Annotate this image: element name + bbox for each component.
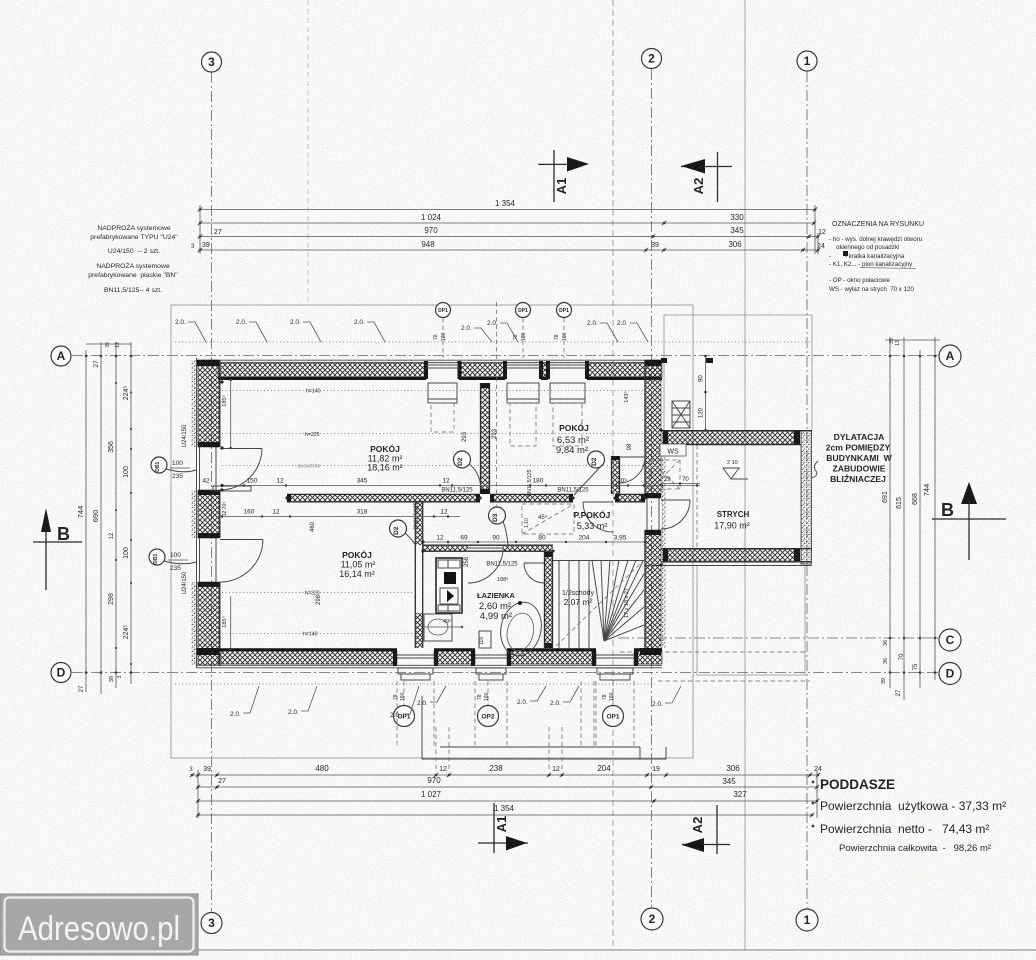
- svg-text:258: 258: [464, 556, 470, 567]
- W1 door leaf/swing: [583, 501, 613, 503]
- svg-text:- - kratka kanalizacyjn: - - kratka kanalizacyjna: [829, 253, 905, 260]
- bottom window symbol: [475, 655, 507, 680]
- svg-text:143⁵: 143⁵: [623, 391, 630, 402]
- svg-text:DB1: DB1: [155, 462, 161, 472]
- dim row bottom 3: [196, 790, 819, 803]
- svg-text:42: 42: [202, 478, 210, 485]
- svg-text:2.0.: 2.0.: [617, 320, 628, 327]
- room label POKOJ 11,82: [367, 443, 403, 473]
- dots near poddasze: [812, 781, 815, 784]
- grid bubble D left: [51, 663, 71, 683]
- section marker B right: [932, 482, 1006, 560]
- svg-text:185⁵: 185⁵: [221, 395, 228, 406]
- svg-text:160: 160: [609, 692, 615, 701]
- svg-text:5,33 m²: 5,33 m²: [577, 521, 608, 531]
- right dim dot: [903, 637, 906, 640]
- left dim tick: [115, 559, 117, 561]
- svg-text:460: 460: [310, 521, 316, 532]
- svg-text:318: 318: [357, 509, 368, 516]
- svg-text:2 10: 2 10: [727, 460, 738, 466]
- svg-text:1 354: 1 354: [494, 804, 515, 813]
- svg-text:744: 744: [76, 506, 85, 519]
- window projection dash x596: [595, 681, 597, 747]
- svg-text:235: 235: [172, 473, 183, 480]
- svg-text:U24/150 -- 2 szt.: U24/150 -- 2 szt.: [108, 248, 160, 255]
- bottom wall jamb block: [393, 650, 397, 666]
- svg-text:36: 36: [883, 640, 889, 646]
- room label STRYCH: [714, 510, 750, 531]
- svg-text:12 70⁵: 12 70⁵: [222, 502, 228, 517]
- svg-text:OZNACZENIA NA RYSUNKU: OZNACZENIA NA RYSUNKU: [832, 221, 924, 228]
- bottom wall outer face lines: [196, 664, 662, 666]
- dim row 1024/330 top: [198, 213, 816, 225]
- interior wall W1 segment: [287, 494, 480, 501]
- extension bottom wall: [661, 548, 812, 550]
- roof slope dotted lines bottom rooms: [222, 592, 415, 594]
- svg-text:NADPROŻA systemowe: NADPROŻA systemowe: [97, 223, 170, 232]
- svg-text:17 x 18 x 27: 17 x 18 x 27: [624, 588, 630, 618]
- right dim dot: [889, 355, 892, 358]
- WS hatch dashed box: [650, 460, 680, 489]
- right dim dot: [889, 637, 892, 640]
- bottom wall masonry segment: [634, 651, 662, 664]
- svg-text:224⁵: 224⁵: [123, 625, 130, 640]
- wall corner block top-left: [197, 360, 219, 366]
- dim row 948/306 top: [198, 240, 825, 252]
- svg-text:306: 306: [726, 764, 740, 773]
- washbasin: [424, 614, 452, 641]
- left dim tick: [130, 492, 132, 494]
- svg-text:2.0.: 2.0.: [587, 320, 598, 327]
- roof slope dotted lines top rooms: [222, 390, 644, 392]
- svg-text:45⁴: 45⁴: [538, 514, 548, 521]
- right dim dot: [889, 671, 892, 674]
- door circle DB1 a: [151, 457, 167, 473]
- svg-text:DP1: DP1: [438, 308, 448, 314]
- left wall outer face: [196, 358, 198, 668]
- svg-text:160: 160: [400, 692, 406, 701]
- svg-text:330: 330: [730, 213, 744, 222]
- svg-text:39: 39: [651, 242, 659, 249]
- left dim dot: [100, 355, 103, 358]
- room label P.POKOJ: [574, 509, 611, 531]
- left dim dot: [100, 671, 103, 674]
- left wall jamb block: [198, 490, 220, 495]
- strych centre dash: [696, 445, 698, 548]
- extension bottom outer line: [644, 565, 812, 567]
- left door 2 leaf and swing: [220, 539, 263, 541]
- left wall insulation strip: [192, 490, 198, 538]
- bottom wall masonry segment: [218, 651, 397, 664]
- dim row bottom 2: [196, 776, 819, 789]
- svg-text:2.0.: 2.0.: [236, 319, 247, 326]
- left dim tick: [115, 382, 117, 384]
- svg-text:12: 12: [436, 535, 444, 542]
- left wall jamb block: [198, 533, 220, 538]
- top wall jamb block: [546, 361, 550, 379]
- door circle D3: [489, 507, 506, 524]
- Adresowo watermark: [0, 894, 198, 955]
- junction dot: [659, 563, 662, 566]
- svg-text:1 024: 1 024: [421, 213, 442, 222]
- room label POKOJ 6,53: [556, 422, 589, 456]
- window projection dash x397: [396, 681, 398, 747]
- svg-text:BN11,5/125: BN11,5/125: [527, 469, 533, 496]
- roof window circle OP1 bottom: [603, 706, 624, 727]
- svg-text:39: 39: [203, 766, 211, 773]
- shelf below left door1: [213, 486, 251, 491]
- svg-text:160: 160: [484, 692, 490, 701]
- left wall masonry segment: [198, 490, 219, 538]
- left wall jamb block: [198, 442, 220, 447]
- svg-text:12: 12: [442, 478, 450, 485]
- DP1 leader: [563, 318, 565, 358]
- roof 2.0 dotted line bottom: [175, 683, 655, 685]
- top wall inner edge: [587, 377, 662, 380]
- W1 end cap: [476, 494, 480, 502]
- svg-text:100: 100: [172, 460, 183, 467]
- junction dot: [643, 496, 646, 499]
- svg-text:345: 345: [357, 478, 368, 485]
- svg-text:2.0.: 2.0.: [354, 319, 365, 326]
- svg-text:39: 39: [109, 676, 115, 682]
- right dim dot: [934, 355, 937, 358]
- window projection dash x434: [433, 681, 435, 747]
- left door 2 opening lines: [199, 538, 201, 582]
- svg-text:A2: A2: [690, 817, 705, 834]
- grid bubble 3 top: [202, 52, 222, 72]
- stairs walk line: [556, 564, 640, 646]
- svg-text:h=225: h=225: [305, 432, 320, 438]
- svg-text:h=140: h=140: [306, 389, 321, 395]
- svg-text:A1: A1: [494, 816, 509, 833]
- stair projection dash x594: [593, 681, 595, 747]
- svg-text:100: 100: [123, 547, 130, 559]
- svg-text:90: 90: [699, 375, 705, 382]
- interior wall W1 segment: [490, 494, 573, 501]
- svg-text:STRYCH: STRYCH: [717, 510, 750, 519]
- wall corner block bottom-left: [197, 648, 219, 655]
- svg-text:OP2: OP2: [481, 713, 494, 720]
- dim row bottom 1: [189, 764, 822, 777]
- right wall jamb blocks: [645, 493, 661, 498]
- svg-text:12: 12: [276, 478, 284, 485]
- junction dot: [421, 540, 424, 543]
- svg-text:D2: D2: [457, 457, 464, 466]
- fold line x745: [744, 0, 746, 950]
- svg-text:1 354: 1 354: [495, 199, 516, 208]
- svg-text:298: 298: [316, 594, 322, 605]
- svg-text:970: 970: [427, 776, 441, 785]
- left dim tick: [115, 647, 117, 649]
- dim row 1354 top: [198, 199, 817, 212]
- P.POKOJ door swing: [619, 456, 645, 458]
- top window symbol: [426, 365, 459, 432]
- svg-text:293: 293: [462, 431, 468, 442]
- svg-text:3: 3: [117, 675, 123, 678]
- svg-text:90: 90: [492, 535, 500, 542]
- leader dash to dim row x562: [561, 727, 563, 771]
- svg-text:78: 78: [554, 334, 560, 340]
- left door 1 leaf and swing: [220, 448, 262, 450]
- junction dot: [551, 549, 554, 552]
- top wall jamb block: [503, 361, 507, 379]
- svg-text:298: 298: [108, 593, 115, 605]
- svg-text:238: 238: [489, 764, 503, 773]
- W1 end cap: [490, 494, 494, 502]
- axis C line: [618, 637, 938, 639]
- svg-text:12: 12: [440, 509, 448, 516]
- svg-text:204: 204: [597, 764, 611, 773]
- svg-text:2: 2: [648, 52, 655, 66]
- WS ladder: [672, 401, 690, 428]
- svg-text:POKÓJ: POKÓJ: [559, 422, 589, 433]
- svg-text:235: 235: [170, 565, 181, 572]
- svg-text:12: 12: [818, 229, 826, 236]
- svg-text:119: 119: [479, 637, 485, 645]
- top wall inner edge: [459, 377, 505, 380]
- svg-text:356: 356: [108, 441, 115, 453]
- svg-text:2,07 m²: 2,07 m²: [564, 597, 593, 607]
- svg-text:2.0.: 2.0.: [230, 711, 241, 718]
- svg-text:327: 327: [733, 790, 747, 799]
- left dim dot: [115, 671, 118, 674]
- svg-text:1: 1: [804, 54, 811, 68]
- W1 end cap: [615, 494, 619, 502]
- leader dash to dim row x436: [435, 727, 437, 771]
- svg-text:970: 970: [424, 226, 438, 235]
- bottom wall jamb block: [634, 650, 638, 666]
- stairs top edge: [553, 560, 644, 562]
- grid bubble 2 bottom: [641, 908, 663, 930]
- grid bubble D right: [939, 663, 961, 685]
- top wall jamb block: [585, 361, 589, 379]
- door circle D2 c: [390, 520, 407, 537]
- bottom window symbol: [397, 655, 434, 680]
- svg-text:27: 27: [79, 685, 85, 692]
- svg-text:75: 75: [913, 663, 919, 670]
- D circle leaders: [164, 464, 603, 564]
- NADPROZA text block: [88, 223, 178, 294]
- chain y516: [221, 509, 460, 518]
- svg-text:160: 160: [441, 332, 447, 341]
- svg-text:2cm POMIĘDZY: 2cm POMIĘDZY: [826, 443, 891, 453]
- chimney block: [436, 558, 462, 613]
- roof window circle OP2 bottom: [478, 706, 499, 727]
- svg-text:DP1: DP1: [559, 308, 569, 314]
- axis 3 line: [211, 72, 213, 912]
- right wall door opening: [646, 498, 648, 530]
- roof outline box main: [171, 305, 693, 758]
- svg-text:D2: D2: [393, 526, 400, 535]
- svg-text:27: 27: [93, 360, 100, 368]
- left dim tick: [130, 663, 132, 665]
- left wall insulation strip: [192, 360, 198, 447]
- dashed line bottom right: [658, 680, 810, 682]
- top wall masonry segment: [541, 363, 548, 377]
- right wall masonry segment: [645, 360, 661, 498]
- WS label box: [660, 444, 686, 456]
- roof window circle DP1: [436, 303, 451, 318]
- right dim dot: [934, 637, 937, 640]
- svg-text:100: 100: [170, 552, 181, 559]
- svg-text:12: 12: [272, 509, 280, 516]
- svg-text:prefabrykowane płaskie "BN": prefabrykowane płaskie "BN": [88, 272, 178, 279]
- svg-text:1: 1: [804, 913, 811, 927]
- room label POKOJ 11,05: [339, 549, 375, 579]
- junction dot: [478, 496, 481, 499]
- svg-text:prefabrykowane TYPU "U24": prefabrykowane TYPU "U24": [90, 234, 178, 241]
- svg-text:1,10: 1,10: [524, 518, 530, 528]
- window projection dash x634: [633, 681, 635, 747]
- axis A line: [72, 355, 938, 357]
- svg-text:29: 29: [664, 477, 671, 483]
- svg-text:12: 12: [439, 766, 447, 773]
- svg-text:3: 3: [208, 916, 215, 930]
- left wall masonry segment: [198, 582, 219, 665]
- dashed line ext mid: [620, 651, 805, 653]
- svg-text:24: 24: [814, 766, 822, 773]
- svg-text:2: 2: [649, 912, 656, 926]
- roof 2.0 dotted line top: [175, 341, 810, 343]
- left dim tick: [130, 582, 132, 584]
- stairs left wall: [545, 552, 553, 649]
- roof outline extension bottom: [697, 565, 805, 675]
- PODDASZE title block: [820, 777, 1006, 854]
- dylatacja speckle strip: [662, 430, 666, 648]
- right dim col lines: [885, 337, 940, 700]
- svg-text:1/2schody: 1/2schody: [562, 590, 594, 597]
- wall corner block bottom-right: [640, 648, 661, 655]
- top window symbol: [548, 365, 587, 446]
- svg-text:69: 69: [460, 535, 468, 542]
- svg-text:BLIŹNIACZEJ: BLIŹNIACZEJ: [830, 474, 886, 484]
- top window symbol: [505, 365, 541, 446]
- left door 1 opening lines: [199, 447, 201, 490]
- svg-text:2.0.: 2.0.: [175, 319, 186, 326]
- section marker B left: [33, 508, 82, 590]
- svg-text:13: 13: [115, 342, 121, 348]
- right dim dot: [934, 671, 937, 674]
- svg-text:690: 690: [91, 510, 100, 523]
- stair door swing: [524, 562, 544, 564]
- top dim connector left: [199, 205, 201, 254]
- top dim connector right: [814, 205, 816, 254]
- svg-text:98: 98: [627, 443, 633, 450]
- section marker A2 bottom: [682, 805, 730, 854]
- bathroom door leaf/swing: [468, 547, 503, 549]
- axis D line: [72, 672, 938, 674]
- extension bottom wall jambs: [663, 549, 668, 561]
- roof window circle OP1 bottom: [394, 706, 415, 727]
- axis 2 line: [651, 69, 653, 907]
- left dim dot: [85, 671, 88, 674]
- svg-text:B: B: [57, 524, 70, 544]
- svg-text:2.0.: 2.0.: [550, 700, 561, 707]
- svg-text:1 027: 1 027: [421, 790, 442, 799]
- svg-text:78: 78: [602, 694, 608, 700]
- bathroom left wall: [415, 502, 422, 648]
- svg-text:B: B: [941, 500, 954, 520]
- faint line x308: [307, 0, 309, 302]
- W1 end cap: [641, 494, 645, 502]
- bottom wall masonry segment: [507, 651, 596, 664]
- svg-text:100: 100: [123, 466, 130, 478]
- svg-text:744: 744: [922, 484, 931, 497]
- bathroom top wall: [423, 545, 553, 551]
- top wall outer face lines: [196, 359, 662, 361]
- svg-text:U24/150: U24/150: [182, 571, 188, 594]
- section marker A1 top: [538, 150, 589, 202]
- left dim tick: [130, 539, 132, 541]
- window projection dash x475: [474, 681, 476, 747]
- svg-text:19: 19: [652, 766, 660, 773]
- left dim tick: [130, 428, 132, 430]
- svg-text:BUDYNKAMI W: BUDYNKAMI W: [826, 453, 892, 463]
- svg-text:615: 615: [896, 497, 903, 509]
- toilet: [496, 598, 546, 659]
- below plan box: [422, 696, 666, 759]
- cistern 119: [479, 631, 491, 648]
- left wall masonry segment: [198, 360, 219, 447]
- svg-text:480: 480: [315, 764, 329, 773]
- top wall jamb block: [539, 361, 543, 379]
- right dim dot: [919, 355, 922, 358]
- right dim dot: [903, 355, 906, 358]
- bottom wall inner edge: [507, 648, 596, 651]
- junction dot: [571, 496, 574, 499]
- svg-text:188⁵: 188⁵: [497, 576, 508, 583]
- svg-text:h=140: h=140: [303, 632, 318, 638]
- svg-text:2.0.: 2.0.: [517, 699, 528, 706]
- svg-text:78: 78: [393, 694, 399, 700]
- roof window circle DP1: [516, 303, 531, 318]
- junction dot: [613, 496, 616, 499]
- junction dot: [220, 446, 223, 449]
- top wall masonry segment: [459, 363, 505, 377]
- bottom dim connector right: [816, 770, 818, 818]
- leader dash to dim row x549: [548, 727, 550, 771]
- svg-text:3: 3: [208, 55, 215, 69]
- room label LAZIENKA: [477, 591, 515, 622]
- door circle D2 a: [454, 451, 471, 468]
- svg-text:Powierzchnia netto - 74,43: Powierzchnia netto - 74,43 m²: [820, 822, 989, 836]
- svg-text:78: 78: [477, 694, 483, 700]
- svg-text:DYLATACJA: DYLATACJA: [834, 432, 885, 442]
- svg-text:691: 691: [882, 491, 889, 503]
- svg-text:OP1: OP1: [606, 713, 619, 720]
- dim row 970/345 top: [198, 226, 826, 239]
- junction dot: [220, 380, 223, 383]
- svg-text:- ho - wys. dolnej krawędzi ot: - ho - wys. dolnej krawędzi otworu: [829, 236, 923, 243]
- top wall masonry segment: [587, 363, 662, 377]
- right dim dot: [919, 637, 922, 640]
- axis 1 line: [806, 71, 808, 908]
- svg-text:okiennego od posadzki: okiennego od posadzki: [836, 244, 899, 251]
- top wall jamb block: [424, 361, 428, 379]
- svg-text:2.0.: 2.0.: [487, 320, 498, 327]
- svg-text:D: D: [57, 666, 66, 680]
- chain y542: [422, 535, 648, 544]
- P.POKOJ wall stub: [612, 456, 620, 494]
- top wall masonry segment: [218, 363, 426, 377]
- svg-text:2.0.: 2.0.: [461, 325, 472, 332]
- ext corner marks: [661, 358, 667, 363]
- svg-text:ZABUDOWIE: ZABUDOWIE: [833, 464, 886, 474]
- svg-text:160: 160: [521, 332, 527, 341]
- svg-text:180: 180: [533, 478, 544, 485]
- extension top wall jambs: [663, 431, 668, 444]
